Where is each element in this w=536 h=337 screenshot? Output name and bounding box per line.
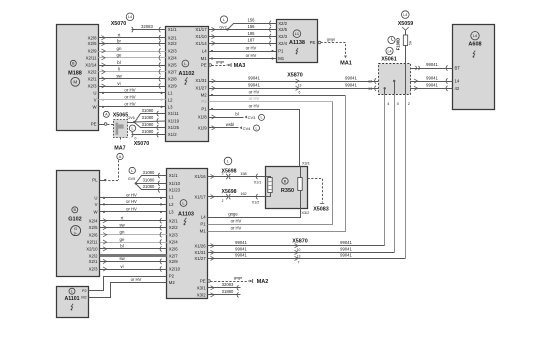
wire 31080 to X1/19 bbox=[134, 115, 165, 123]
svg-text:X2/5: X2/5 bbox=[168, 63, 177, 68]
svg-text:X2/3: X2/3 bbox=[88, 84, 97, 89]
svg-text:X1/14: X1/14 bbox=[195, 41, 207, 46]
svg-text:L4: L4 bbox=[202, 49, 207, 54]
svg-text:99041: 99041 bbox=[345, 75, 357, 80]
HV wire M1 to A1138 M1 (or HV) bbox=[209, 53, 276, 60]
svg-text:A1103: A1103 bbox=[178, 212, 194, 218]
wire M188 to A1102 (gn) bbox=[98, 46, 165, 54]
svg-text:31080: 31080 bbox=[142, 108, 154, 113]
svg-text:L: L bbox=[256, 126, 258, 130]
connector block X5061 bbox=[368, 64, 411, 95]
wire M188 to A1102 (rt) bbox=[98, 33, 165, 41]
svg-text:99041: 99041 bbox=[340, 240, 352, 245]
svg-text:X2/7: X2/7 bbox=[168, 69, 177, 74]
svg-text:gnge: gnge bbox=[228, 211, 238, 216]
HV phase wire V to L2 (or HV) bbox=[98, 95, 165, 101]
svg-text:99041: 99041 bbox=[345, 83, 357, 88]
svg-text:M2: M2 bbox=[81, 296, 86, 300]
svg-text:X2/8: X2/8 bbox=[88, 35, 97, 40]
svg-text:gnge: gnge bbox=[216, 60, 224, 64]
svg-text:L: L bbox=[131, 169, 133, 173]
wire 158 X1/16 to R350 X1/1 via X5698 bbox=[208, 168, 266, 184]
label X5061 bbox=[381, 47, 397, 62]
wire M188 to A1102 (vi) bbox=[98, 81, 165, 89]
connector X5870 top bbox=[287, 72, 303, 78]
svg-text:32083: 32083 bbox=[141, 24, 153, 29]
svg-text:X2/1: X2/1 bbox=[88, 77, 97, 82]
svg-text:X1/2: X1/2 bbox=[252, 201, 260, 205]
svg-text:4: 4 bbox=[387, 102, 389, 106]
svg-text:X1/8: X1/8 bbox=[198, 115, 207, 120]
svg-text:PE: PE bbox=[201, 63, 207, 68]
wire G102 to A1103 (gn) bbox=[100, 230, 167, 238]
svg-text:BT: BT bbox=[455, 66, 461, 71]
svg-text:X3/2: X3/2 bbox=[302, 211, 310, 215]
svg-text:gnge: gnge bbox=[234, 276, 242, 280]
svg-text:31080: 31080 bbox=[143, 184, 155, 189]
svg-text:X2/2: X2/2 bbox=[88, 69, 97, 74]
resistor R350 bbox=[266, 167, 308, 209]
svg-text:L: L bbox=[131, 127, 133, 131]
svg-text:L4: L4 bbox=[387, 49, 391, 53]
svg-text:gn: gn bbox=[120, 230, 125, 235]
svg-text:or HV: or HV bbox=[231, 218, 242, 223]
svg-text:A1102: A1102 bbox=[179, 71, 195, 77]
svg-text:X2/4: X2/4 bbox=[169, 240, 178, 245]
svg-text:X3/1: X3/1 bbox=[302, 162, 310, 166]
pin label R350 X3/2 bbox=[302, 211, 310, 215]
svg-text:X2/9: X2/9 bbox=[168, 84, 177, 89]
wire 99041 to A608 pin42 bbox=[410, 83, 453, 91]
svg-text:99041: 99041 bbox=[235, 247, 247, 252]
wire G102 to A1103 (rt) bbox=[100, 216, 167, 224]
svg-text:sw: sw bbox=[116, 74, 122, 79]
svg-text:X5070: X5070 bbox=[111, 21, 127, 27]
HV phase wire G102 V to L2 (or HV) bbox=[100, 199, 167, 205]
svg-text:G102: G102 bbox=[68, 217, 81, 223]
svg-text:F100D: F100D bbox=[396, 38, 401, 51]
svg-text:42: 42 bbox=[455, 86, 460, 91]
svg-text:X5070: X5070 bbox=[134, 141, 150, 147]
svg-text:X2/11: X2/11 bbox=[87, 240, 99, 245]
svg-text:M188: M188 bbox=[68, 71, 82, 77]
svg-text:or HV: or HV bbox=[231, 225, 242, 230]
svg-text:13: 13 bbox=[298, 83, 302, 87]
svg-text:X2/4: X2/4 bbox=[89, 218, 98, 223]
ground wire M188 PE bbox=[98, 123, 113, 126]
svg-text:99041: 99041 bbox=[426, 83, 438, 88]
connector X5070 top bbox=[111, 13, 134, 27]
svg-text:X1/1: X1/1 bbox=[168, 27, 177, 32]
HV wire L4 to A1138 P1 (or HV) bbox=[209, 45, 276, 52]
wire 32083 A1103 X3/1 bbox=[208, 282, 241, 290]
svg-text:X1/31: X1/31 bbox=[195, 78, 207, 83]
svg-text:X2/2: X2/2 bbox=[89, 253, 98, 258]
svg-text:X1/1: X1/1 bbox=[169, 173, 178, 178]
svg-text:M1: M1 bbox=[201, 56, 208, 61]
svg-text:sw: sw bbox=[119, 222, 125, 227]
svg-text:99041: 99041 bbox=[426, 62, 438, 67]
riser wire pin13 to X1/26 bbox=[384, 94, 386, 246]
battery unit A608 bbox=[453, 25, 495, 110]
svg-text:X5870: X5870 bbox=[292, 238, 308, 244]
svg-text:or HV: or HV bbox=[246, 53, 257, 58]
svg-text:7: 7 bbox=[298, 261, 300, 265]
svg-text:or HV: or HV bbox=[249, 89, 260, 94]
wire 99041 to A608 BT bbox=[410, 62, 453, 70]
wire 31080 to A1103 X1/23 bbox=[136, 184, 167, 193]
wire 31080 to X1/11 bbox=[135, 108, 166, 123]
svg-text:X5083: X5083 bbox=[313, 207, 329, 213]
svg-text:PE: PE bbox=[91, 122, 97, 127]
svg-text:X1/27: X1/27 bbox=[195, 86, 207, 91]
connector X5698 code bbox=[224, 157, 232, 165]
svg-text:U: U bbox=[94, 196, 97, 201]
wire G102 to A1103 (bl) bbox=[100, 244, 167, 252]
wire 32083 to A1102 X1/1 bbox=[132, 24, 166, 32]
wire M188 to A1102 (ge) bbox=[98, 53, 165, 61]
svg-text:X1/25: X1/25 bbox=[168, 125, 180, 130]
svg-text:31880: 31880 bbox=[222, 289, 234, 294]
wire A1101 M2 to A1103 M2 (or HV) bbox=[89, 277, 167, 298]
connector X5083 bbox=[308, 179, 329, 213]
HV wire A1102 P1 to R350 X3/1 (or HV) bbox=[209, 103, 300, 166]
svg-text:187: 187 bbox=[248, 38, 256, 43]
shield connector X5065 bbox=[103, 111, 135, 137]
svg-text:X2/4: X2/4 bbox=[278, 41, 287, 46]
svg-text:X2/5: X2/5 bbox=[278, 27, 287, 32]
svg-text:X2/1: X2/1 bbox=[89, 259, 98, 264]
svg-text:wsbl: wsbl bbox=[226, 122, 234, 127]
wire 31080 to A1103 X1/10 bbox=[135, 178, 167, 186]
svg-text:M: M bbox=[73, 80, 77, 85]
svg-text:X5059: X5059 bbox=[398, 21, 414, 27]
svg-text:CV3: CV3 bbox=[248, 115, 257, 120]
riser wire F100D to X1/27 bbox=[405, 94, 407, 258]
svg-text:CV4: CV4 bbox=[243, 126, 252, 131]
svg-text:MA2: MA2 bbox=[257, 279, 269, 285]
svg-text:P1: P1 bbox=[200, 222, 206, 227]
svg-text:or HV: or HV bbox=[126, 199, 137, 204]
svg-text:156: 156 bbox=[248, 18, 256, 23]
svg-text:X2/4: X2/4 bbox=[168, 55, 177, 60]
wire 162 X1/17 to R350 X1/2 via X5698 bbox=[208, 189, 266, 205]
svg-text:0: 0 bbox=[397, 102, 399, 106]
svg-text:X5061: X5061 bbox=[381, 56, 397, 62]
svg-text:X2/6: X2/6 bbox=[169, 247, 178, 252]
svg-text:M2: M2 bbox=[169, 280, 176, 285]
svg-text:or HV: or HV bbox=[249, 103, 260, 108]
svg-text:L2: L2 bbox=[169, 202, 174, 207]
clock symbol bbox=[388, 36, 395, 43]
svg-text:X1/26: X1/26 bbox=[194, 243, 206, 248]
wire G102 to A1103 (sw) bbox=[100, 222, 167, 230]
svg-text:X2/3: X2/3 bbox=[169, 232, 178, 237]
svg-text:31080: 31080 bbox=[142, 129, 154, 134]
svg-text:X1/23: X1/23 bbox=[169, 188, 181, 193]
svg-text:R350: R350 bbox=[281, 188, 294, 194]
connector X5070 lower bbox=[129, 125, 149, 147]
inverter A1103 bbox=[167, 169, 208, 299]
svg-text:ge: ge bbox=[120, 237, 125, 242]
svg-text:L4: L4 bbox=[403, 13, 407, 17]
svg-text:X2/1: X2/1 bbox=[168, 35, 177, 40]
svg-text:bl: bl bbox=[120, 244, 123, 249]
svg-text:br: br bbox=[117, 38, 121, 43]
svg-text:L4: L4 bbox=[473, 34, 477, 38]
svg-text:X5870: X5870 bbox=[287, 72, 303, 78]
svg-text:P2: P2 bbox=[82, 289, 87, 293]
svg-text:X2/11: X2/11 bbox=[86, 55, 98, 60]
svg-text:99041: 99041 bbox=[235, 253, 247, 258]
svg-text:gn: gn bbox=[117, 46, 122, 51]
svg-text:L4: L4 bbox=[201, 215, 206, 220]
svg-text:X1/2: X1/2 bbox=[168, 132, 177, 137]
HV phase wire G102 U to L1 (or HV) bbox=[100, 193, 167, 199]
HV phase wire G102 W to L3 (or HV) bbox=[100, 207, 167, 213]
wire G102 to A1103 (vi) bbox=[100, 264, 167, 272]
wire M188 to A1102 (sw) bbox=[98, 74, 165, 82]
wire G102 to A1103 (sw) bbox=[100, 256, 167, 264]
svg-text:X2/3: X2/3 bbox=[278, 34, 287, 39]
ground MA7 bbox=[100, 137, 126, 181]
svg-text:L: L bbox=[223, 18, 225, 22]
splice node GV2 bbox=[219, 16, 227, 30]
svg-text:ge: ge bbox=[117, 53, 122, 58]
svg-text:MA1: MA1 bbox=[340, 61, 352, 67]
svg-text:bl: bl bbox=[117, 60, 120, 65]
svg-text:PE: PE bbox=[310, 40, 316, 45]
svg-text:156: 156 bbox=[248, 24, 256, 29]
svg-text:X5065: X5065 bbox=[113, 113, 129, 119]
svg-text:X1/27: X1/27 bbox=[194, 256, 206, 261]
motor M188 bbox=[57, 25, 99, 131]
wire 99041 X1/31 to X5061 pin12 bbox=[209, 75, 379, 87]
svg-text:L4: L4 bbox=[128, 15, 132, 19]
svg-text:A1138: A1138 bbox=[289, 40, 305, 46]
svg-text:X2/7: X2/7 bbox=[169, 253, 178, 258]
svg-text:X1/9: X1/9 bbox=[198, 125, 207, 130]
svg-text:G: G bbox=[74, 226, 77, 231]
connector X5870 bottom bbox=[292, 238, 308, 244]
svg-text:X2/2: X2/2 bbox=[169, 225, 178, 230]
splice node GV5 bbox=[128, 167, 136, 181]
generator G102 bbox=[57, 171, 100, 277]
svg-text:P2: P2 bbox=[169, 274, 175, 279]
ground MA1 bbox=[318, 37, 352, 66]
svg-text:3~: 3~ bbox=[74, 232, 78, 236]
svg-text:M1: M1 bbox=[278, 56, 285, 61]
svg-text:X1/1: X1/1 bbox=[254, 180, 262, 184]
svg-text:X2/2: X2/2 bbox=[278, 21, 287, 26]
pin label R350 X3/1 bbox=[302, 162, 310, 166]
svg-text:X2/5: X2/5 bbox=[88, 41, 97, 46]
svg-text:X2/1: X2/1 bbox=[169, 218, 178, 223]
riser wire pin12 to X1/31 bbox=[394, 94, 396, 252]
svg-text:99041: 99041 bbox=[248, 83, 260, 88]
HV wire A1102 P2 to A1103 P1 (or HV) bbox=[208, 96, 333, 225]
svg-text:X2/9: X2/9 bbox=[169, 259, 178, 264]
svg-text:A1101: A1101 bbox=[65, 296, 80, 302]
svg-text:X2/5: X2/5 bbox=[89, 225, 98, 230]
wire 31080 to A1103 X1/1 bbox=[136, 170, 167, 184]
svg-text:B: B bbox=[74, 208, 77, 212]
control unit A1101 bbox=[57, 287, 89, 318]
svg-text:P1: P1 bbox=[201, 107, 207, 112]
svg-text:X1/10: X1/10 bbox=[169, 181, 181, 186]
svg-text:V: V bbox=[94, 97, 97, 102]
svg-text:li: li bbox=[118, 67, 120, 72]
svg-text:X2/2: X2/2 bbox=[168, 41, 177, 46]
svg-text:14: 14 bbox=[455, 79, 460, 84]
wire 31880 A1103 X3/2 bbox=[208, 289, 241, 297]
svg-text:L2: L2 bbox=[168, 97, 173, 102]
wire wsbl X1/9 to CV4 bbox=[209, 122, 260, 131]
svg-text:X2/8: X2/8 bbox=[168, 77, 177, 82]
svg-text:162: 162 bbox=[240, 192, 246, 196]
svg-text:L: L bbox=[71, 289, 73, 293]
svg-text:P2: P2 bbox=[201, 99, 207, 104]
svg-text:vi: vi bbox=[117, 81, 120, 86]
X5061 internal branch pin 12 bbox=[393, 80, 395, 94]
svg-text:L3: L3 bbox=[169, 210, 174, 215]
svg-text:A608: A608 bbox=[468, 42, 481, 48]
svg-text:99041: 99041 bbox=[340, 253, 352, 258]
wire M188 to A1102 (li) bbox=[98, 67, 165, 75]
shielded wire G102 X2/2 to A1103 X2/7 bbox=[100, 254, 167, 257]
wire M188 to A1102 (br) bbox=[98, 38, 165, 46]
HV phase wire U to L1 (or HV) bbox=[98, 88, 165, 94]
svg-text:L1: L1 bbox=[168, 91, 173, 96]
svg-text:B: B bbox=[72, 62, 75, 66]
wire 99041 X1/27 bbox=[208, 253, 406, 265]
svg-text:31080: 31080 bbox=[143, 178, 155, 183]
svg-text:X2/14: X2/14 bbox=[85, 63, 97, 68]
svg-text:vi: vi bbox=[120, 264, 123, 269]
svg-text:X2/6: X2/6 bbox=[89, 232, 98, 237]
svg-text:U: U bbox=[93, 91, 96, 96]
svg-text:2: 2 bbox=[408, 102, 410, 106]
svg-text:X2/10: X2/10 bbox=[86, 247, 98, 252]
HV wire A1102 M2 to A1103 M1 (or HV) bbox=[208, 89, 346, 231]
inverter A1102 bbox=[166, 27, 209, 142]
svg-text:X2/10: X2/10 bbox=[169, 267, 181, 272]
svg-text:L1: L1 bbox=[169, 194, 174, 199]
svg-text:X1/19: X1/19 bbox=[168, 119, 180, 124]
svg-text:or HV: or HV bbox=[124, 102, 135, 107]
svg-text:99041: 99041 bbox=[235, 240, 247, 245]
svg-text:X5698: X5698 bbox=[221, 168, 236, 174]
wire 156 X1/17 to A1138 X2/2 and X2/5 bbox=[209, 18, 277, 32]
fuse F100D bbox=[396, 27, 413, 94]
wire M188 to A1102 (bl) bbox=[98, 60, 165, 68]
svg-text:X1/17: X1/17 bbox=[194, 194, 206, 199]
svg-text:or HV: or HV bbox=[126, 207, 137, 212]
wire 99041 X1/31 bbox=[208, 247, 395, 259]
wire R350 X3/2 to A1103 L4 bbox=[208, 209, 301, 218]
wire A1101 P2 to A1103 P2 bbox=[89, 277, 167, 291]
ground MA2 bbox=[208, 276, 269, 285]
svg-text:X2/3: X2/3 bbox=[168, 49, 177, 54]
svg-text:L1: L1 bbox=[295, 32, 299, 36]
svg-text:X1/17: X1/17 bbox=[195, 27, 207, 32]
wire 187 X1/14 to A1138 X2/4 bbox=[209, 38, 276, 46]
svg-text:PL: PL bbox=[92, 178, 98, 183]
svg-text:31080: 31080 bbox=[142, 122, 154, 127]
wire 99041 to A608 pin14 bbox=[410, 75, 453, 83]
svg-text:GV5: GV5 bbox=[128, 177, 135, 181]
svg-text:or HV: or HV bbox=[246, 45, 257, 50]
wire 31080 to X1/2 bbox=[132, 129, 166, 141]
svg-text:X1/31: X1/31 bbox=[194, 250, 206, 255]
svg-text:10: 10 bbox=[297, 248, 301, 252]
svg-text:X2/3: X2/3 bbox=[89, 267, 98, 272]
svg-text:32083: 32083 bbox=[222, 282, 234, 287]
ground MA3 bbox=[209, 60, 246, 69]
svg-text:99041: 99041 bbox=[340, 247, 352, 252]
svg-text:2: 2 bbox=[222, 199, 224, 203]
wire G102 to A1103 (ge) bbox=[100, 237, 167, 245]
svg-text:X1/16: X1/16 bbox=[194, 174, 206, 179]
svg-text:P1: P1 bbox=[278, 49, 284, 54]
svg-text:0: 0 bbox=[135, 136, 137, 140]
svg-text:X2/9: X2/9 bbox=[88, 49, 97, 54]
wire 31080 to X1/25 bbox=[135, 122, 166, 130]
wire 185 X1/10 to A1138 X2/3 bbox=[209, 31, 276, 39]
wire 99041 X1/26 bbox=[208, 240, 385, 252]
svg-text:or HV: or HV bbox=[124, 88, 135, 93]
svg-text:185: 185 bbox=[248, 31, 256, 36]
wire bl X1/8 to CV3 bbox=[209, 111, 265, 120]
svg-text:MA7: MA7 bbox=[114, 146, 125, 152]
svg-text:V: V bbox=[95, 202, 98, 207]
svg-text:X1/11: X1/11 bbox=[168, 111, 180, 116]
svg-text:or HV: or HV bbox=[126, 193, 137, 198]
svg-text:MA3: MA3 bbox=[234, 63, 246, 69]
svg-text:158: 158 bbox=[240, 172, 246, 176]
svg-text:31080: 31080 bbox=[142, 115, 154, 120]
svg-text:L: L bbox=[261, 116, 263, 120]
svg-text:6: 6 bbox=[299, 91, 301, 95]
svg-text:L3: L3 bbox=[168, 104, 173, 109]
HV phase wire W to L3 (or HV) bbox=[98, 102, 165, 108]
X5061 lower pin numbers bbox=[387, 102, 410, 106]
svg-text:PE: PE bbox=[200, 279, 206, 284]
svg-text:X3/2: X3/2 bbox=[197, 293, 206, 298]
svg-text:99041: 99041 bbox=[248, 75, 260, 80]
svg-text:bl: bl bbox=[235, 111, 238, 116]
svg-text:X1/10: X1/10 bbox=[195, 34, 207, 39]
svg-text:or HV: or HV bbox=[249, 96, 260, 101]
svg-text:M1: M1 bbox=[200, 229, 207, 234]
svg-text:X3/1: X3/1 bbox=[197, 285, 206, 290]
svg-text:31080: 31080 bbox=[143, 170, 155, 175]
svg-text:or HV: or HV bbox=[124, 95, 135, 100]
control unit A1138 bbox=[277, 20, 318, 63]
svg-text:M2: M2 bbox=[201, 93, 208, 98]
svg-text:gnge: gnge bbox=[327, 37, 335, 41]
wire 99041 X1/27 to X5061 pin13 bbox=[209, 83, 379, 95]
svg-text:99041: 99041 bbox=[426, 75, 438, 80]
svg-text:or HV: or HV bbox=[131, 277, 142, 282]
connector X5059 bbox=[398, 11, 414, 27]
svg-text:GV6: GV6 bbox=[127, 116, 134, 120]
X5061 internal branch pin 13 bbox=[384, 87, 386, 94]
svg-text:X5698: X5698 bbox=[221, 189, 236, 195]
